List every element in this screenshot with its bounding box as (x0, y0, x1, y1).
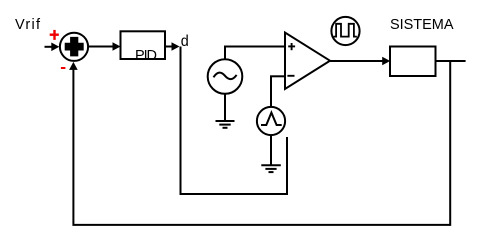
svg-text:PID: PID (135, 48, 157, 64)
svg-text:SISTEMA: SISTEMA (390, 17, 454, 33)
svg-text:d: d (181, 33, 189, 50)
svg-text:Vrif: Vrif (15, 17, 41, 33)
